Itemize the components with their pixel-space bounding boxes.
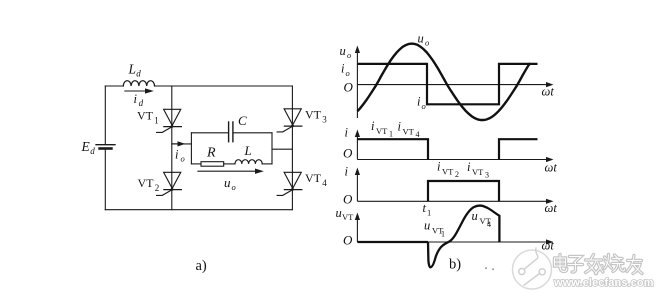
svg-text:o: o: [425, 38, 429, 48]
svg-text:VT: VT: [305, 108, 322, 122]
node VT2 cathode: [171, 188, 174, 191]
svg-text:1: 1: [441, 230, 445, 239]
svg-text:VT: VT: [472, 167, 484, 177]
watermark char you: [627, 256, 642, 274]
watermark char shao core: [605, 255, 625, 272]
svg-text:4: 4: [416, 130, 420, 139]
watermark logo pad right: [539, 269, 545, 275]
axis panel2 y: [355, 130, 360, 160]
axis panel1 x: [357, 82, 553, 87]
node VT3 cathode: [291, 125, 294, 128]
svg-text:3: 3: [322, 115, 327, 125]
wire capacitor top branch right: [233, 132, 272, 134]
svg-text:VT: VT: [305, 171, 322, 185]
svg-text:i: i: [175, 148, 179, 162]
svg-text:u: u: [336, 206, 342, 220]
svg-text:www.elecfans.com: www.elecfans.com: [553, 277, 654, 289]
svg-text:o: o: [422, 101, 426, 111]
svg-text:L: L: [128, 62, 137, 77]
wire top bus right segment: [155, 85, 293, 87]
battery Ed: [96, 145, 115, 149]
svg-text:o: o: [181, 154, 185, 164]
svg-text:VT: VT: [403, 127, 415, 137]
svg-text:ωt: ωt: [545, 161, 558, 175]
wire capacitor top branch left: [191, 132, 228, 134]
axis panel4 x: [357, 239, 553, 244]
svg-text:i: i: [341, 62, 345, 76]
svg-text:b): b): [449, 257, 461, 273]
inductor L: [235, 160, 262, 164]
waveform iVT1 iVT4 panel2: [357, 139, 537, 159]
arrow io: [172, 141, 186, 146]
svg-text:u: u: [418, 32, 424, 46]
svg-text:O: O: [343, 192, 353, 207]
svg-text:3: 3: [485, 171, 489, 180]
watermark logo trace upper: [522, 248, 538, 272]
svg-text:VT: VT: [376, 126, 388, 136]
svg-text:i: i: [134, 92, 138, 106]
wire R to L: [224, 163, 235, 165]
svg-text:4: 4: [322, 178, 327, 188]
svg-text:d: d: [139, 98, 144, 108]
capacitor C: [229, 122, 233, 142]
svg-text:u: u: [424, 219, 430, 233]
resistor R: [201, 162, 224, 167]
waveform uVT zero segment panel4: [357, 241, 428, 243]
wire load output tap: [272, 148, 292, 150]
svg-text:d: d: [136, 69, 141, 79]
thyristor VT4: [277, 172, 302, 195]
svg-text:o: o: [346, 68, 350, 78]
svg-text:L: L: [244, 143, 252, 158]
waveform io square panel1: [357, 64, 537, 104]
wire load box right edge: [271, 133, 273, 164]
svg-text:i: i: [345, 165, 349, 179]
waveform iVT2 iVT3 panel3: [428, 181, 499, 201]
waveform uo sine panel1: [358, 44, 531, 120]
svg-text:VT: VT: [442, 167, 454, 177]
svg-text:4: 4: [487, 220, 491, 229]
wire VT3/VT4 branch: [291, 86, 293, 210]
svg-text:VT: VT: [137, 109, 154, 123]
node VT1 cathode: [171, 125, 174, 128]
watermark char you core: [627, 256, 642, 274]
arrow id: [124, 88, 154, 93]
svg-text:a): a): [196, 258, 207, 274]
thyristor VT3: [277, 109, 302, 132]
wire top bus left segment: [105, 85, 123, 87]
thyristor VT2: [157, 172, 182, 195]
axis panel3 y: [355, 168, 360, 202]
inductor Ld: [123, 81, 154, 86]
watermark char dian: [555, 255, 567, 272]
wire VT1/VT2 branch: [171, 86, 173, 210]
svg-text:i: i: [437, 160, 441, 174]
watermark logo trace lower: [524, 272, 543, 286]
svg-text:2: 2: [155, 183, 160, 193]
svg-text:1: 1: [154, 116, 159, 126]
svg-text:o: o: [347, 50, 351, 60]
wire left rail upper: [104, 86, 106, 144]
svg-text:ωt: ωt: [545, 201, 558, 215]
svg-text:i: i: [417, 95, 421, 109]
wire bottom branch right: [262, 163, 272, 165]
svg-text:VT: VT: [138, 176, 155, 190]
arrow uo: [197, 169, 263, 174]
wire bottom branch left: [191, 163, 201, 165]
node VT4 cathode: [291, 188, 294, 191]
svg-text:i: i: [345, 126, 349, 140]
svg-text:t: t: [423, 201, 427, 215]
svg-text:ωt: ωt: [542, 239, 555, 253]
svg-text:C: C: [238, 113, 247, 128]
watermark char dian core: [555, 255, 567, 272]
svg-text:1: 1: [389, 130, 393, 139]
watermark char zi: [568, 257, 583, 273]
wire bottom bus: [105, 209, 292, 211]
svg-text:O: O: [343, 146, 353, 161]
svg-text:u: u: [472, 209, 478, 223]
axis panel2 x: [357, 157, 553, 162]
watermark char fa: [586, 255, 604, 274]
wire load box left edge: [190, 133, 192, 164]
axis panel1 y: [355, 46, 360, 119]
svg-text:O: O: [343, 233, 353, 248]
watermark logo circle: [513, 250, 552, 289]
thyristor VT1: [157, 109, 182, 132]
svg-text:E: E: [81, 139, 91, 154]
svg-text:2: 2: [455, 170, 459, 179]
watermark char shao: [605, 255, 625, 272]
watermark logo pad left: [519, 268, 525, 274]
svg-text:u: u: [224, 175, 231, 190]
svg-text:i: i: [371, 119, 375, 133]
waveform uVT dip and hump panel4: [428, 206, 499, 268]
watermark char zi core: [568, 257, 583, 273]
svg-text:o: o: [232, 182, 236, 192]
wire left rail lower: [104, 150, 106, 210]
svg-text:u: u: [340, 44, 346, 58]
svg-text:1: 1: [427, 208, 431, 218]
stray dots: [485, 267, 494, 270]
svg-text:d: d: [90, 146, 95, 156]
svg-text:i: i: [467, 160, 471, 174]
svg-text:ωt: ωt: [542, 85, 555, 99]
watermark char fa core: [586, 255, 604, 274]
svg-text:i: i: [398, 120, 402, 134]
svg-text:VT: VT: [342, 212, 354, 222]
svg-text:O: O: [344, 80, 354, 95]
axis panel4 y: [355, 213, 360, 243]
svg-text:R: R: [206, 146, 216, 161]
wire load input: [172, 143, 192, 145]
axis panel3 x: [357, 199, 553, 204]
